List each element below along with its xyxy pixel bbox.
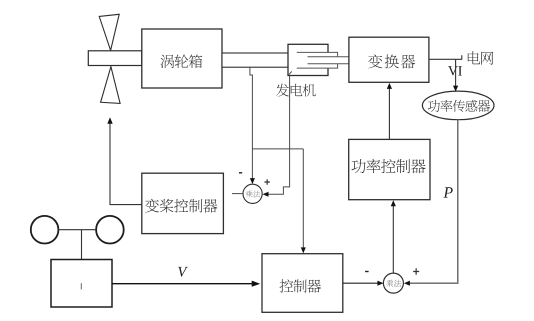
anemometer mast bbox=[81, 230, 83, 260]
turbine blade lower bbox=[101, 67, 121, 104]
sign plus at junction 2 bbox=[413, 268, 419, 275]
wire: wind speed V to controller bbox=[112, 281, 260, 287]
block: power controller 功率控制器 bbox=[349, 139, 430, 199]
wire: junction 1 output to pitch controller bbox=[232, 193, 243, 195]
anemometer crossbar bbox=[58, 229, 96, 231]
turbine hub shaft bbox=[88, 51, 142, 66]
sign plus at junction 1 bbox=[264, 179, 270, 185]
wire: power sensor down and left to summing junction 2 bbox=[404, 120, 458, 286]
wire: speed tap horizontal bbox=[252, 148, 303, 150]
wire: pitch controller to blades bbox=[107, 117, 142, 204]
sign minus at junction 2 bbox=[365, 271, 369, 273]
label P bbox=[443, 187, 452, 197]
anemometer body box bbox=[51, 260, 112, 308]
wire: controller to summing junction 2 bbox=[343, 281, 384, 286]
node label: grid 电网 bbox=[468, 51, 494, 64]
block: controller 控制器 bbox=[262, 254, 343, 313]
wire: power controller to converter bbox=[387, 83, 392, 139]
wire: summing junction 2 to power controller bbox=[391, 200, 396, 273]
block: power sensor 功率传感器 (ellipse) bbox=[422, 91, 494, 120]
anemometer cup right bbox=[96, 216, 124, 244]
shaft gearbox to generator bbox=[222, 53, 289, 67]
block: gearbox 涡轮箱 bbox=[142, 29, 222, 88]
wire: generator speed feedback to junction 1 bbox=[263, 76, 290, 197]
wire: converter to grid bbox=[429, 55, 462, 59]
sign minus at junction 1 bbox=[239, 172, 242, 174]
wire: shaft speed down to summing junction 1 bbox=[250, 67, 255, 184]
label V bbox=[178, 267, 188, 277]
label VI bbox=[448, 66, 458, 75]
block: generator 发电机 bbox=[276, 44, 349, 96]
block: converter 变换器 bbox=[349, 37, 429, 82]
summing junction 2 (乘法) bbox=[383, 273, 403, 293]
anemometer cup left bbox=[31, 216, 59, 244]
wire: speed tap down to controller bbox=[301, 149, 306, 254]
turbine blade upper bbox=[99, 14, 119, 50]
summing junction 1 (乘法) bbox=[243, 184, 262, 203]
wire: grid tap down to power sensor bbox=[453, 59, 458, 91]
block: pitch controller 变桨控制器 bbox=[142, 173, 224, 233]
